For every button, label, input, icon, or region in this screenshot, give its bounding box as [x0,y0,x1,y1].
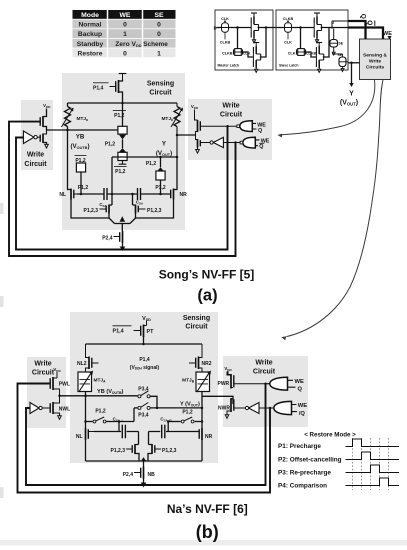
svg-text:Sensing &: Sensing & [363,53,387,59]
svg-text:MTJa: MTJa [77,116,89,122]
svg-text:NR: NR [205,434,213,440]
svg-text:P1,2: P1,2 [95,409,106,415]
svg-text:P2,4: P2,4 [123,472,134,478]
svg-text:0: 0 [123,22,127,29]
svg-text:P1,2: P1,2 [105,141,116,147]
svg-text:CSA_L: CSA_L [113,417,124,423]
svg-text:CLKB: CLKB [220,41,231,45]
svg-text:0: 0 [157,22,161,29]
svg-text:NWL: NWL [59,407,70,413]
svg-text:Circuits: Circuits [366,65,384,71]
svg-text:P1,2: P1,2 [115,169,126,175]
svg-text:MTJA: MTJA [94,378,107,384]
svg-text:Restore: Restore [78,50,103,57]
svg-text:Y: Y [349,91,354,98]
svg-text:P3,4: P3,4 [138,412,149,418]
svg-text:P2: Offset-cancelling: P2: Offset-cancelling [278,457,342,464]
svg-text:NL2: NL2 [77,361,87,367]
svg-text:Master Latch: Master Latch [218,64,240,68]
svg-text:0: 0 [123,50,127,57]
svg-text:Circuit: Circuit [32,370,55,377]
svg-text:SE: SE [154,12,164,19]
svg-text:/Q: /Q [299,411,306,417]
svg-text:Backup: Backup [78,31,102,38]
svg-text:Write: Write [34,361,51,368]
svg-text:CSA: CSA [136,200,144,206]
svg-text:P1,2,3: P1,2,3 [111,448,126,454]
svg-text:CLKB: CLKB [283,17,294,21]
svg-text:CLK: CLK [284,41,292,45]
svg-text:Circuit: Circuit [24,161,47,168]
svg-text:Sensing: Sensing [183,315,210,322]
svg-text:Circuit: Circuit [220,112,243,119]
svg-text:CLK: CLK [221,17,229,21]
svg-text:Sensing: Sensing [147,81,174,88]
svg-text:P1,2: P1,2 [155,185,166,191]
svg-text:P1,2,3: P1,2,3 [84,208,99,214]
svg-text:Standby: Standby [77,41,104,48]
svg-text:0: 0 [157,31,161,38]
svg-text:CLKB: CLKB [222,51,233,55]
svg-text:Na’s NV-FF [6]: Na’s NV-FF [6] [167,502,248,516]
svg-text:P4: Comparison: P4: Comparison [278,483,327,490]
svg-text:CSA_R: CSA_R [160,417,172,423]
svg-text:P1,4: P1,4 [113,329,124,335]
svg-text:P1,4: P1,4 [93,85,104,91]
svg-text:Circuit: Circuit [149,90,172,97]
svg-text:WE: WE [295,379,304,385]
svg-text:VDD: VDD [53,367,61,373]
svg-text:1: 1 [157,50,161,57]
svg-text:P1: Precharge: P1: Precharge [278,443,321,450]
svg-text:(VDDH signal): (VDDH signal) [130,365,160,371]
svg-text:Slave Latch: Slave Latch [279,64,298,68]
svg-text:MTJb: MTJb [161,116,173,122]
svg-text:Circuit: Circuit [253,369,276,376]
svg-text:Write: Write [27,152,44,159]
svg-text:P1,2: P1,2 [182,410,193,416]
svg-text:VDD: VDD [224,366,232,372]
svg-text:Q: Q [360,14,367,19]
svg-text:Song’s NV-FF [5]: Song’s NV-FF [5] [159,268,255,282]
svg-text:P2,4: P2,4 [102,235,113,241]
svg-text:YB: YB [76,133,85,140]
svg-text:Circuit: Circuit [185,323,208,330]
svg-text:VDD: VDD [43,103,51,109]
svg-text:P1,2: P1,2 [146,161,157,167]
svg-text:PT: PT [147,329,155,335]
svg-text:(a): (a) [197,287,217,305]
svg-text:P1,4: P1,4 [139,357,150,363]
svg-text:Normal: Normal [78,22,101,29]
svg-text:NL: NL [59,192,66,198]
svg-text:(b): (b) [196,522,219,542]
svg-text:NR2: NR2 [202,361,212,367]
svg-text:NL: NL [76,434,83,440]
svg-text:NB: NB [148,472,156,478]
svg-text:PWL: PWL [59,382,70,388]
svg-text:Zero VDD Scheme: Zero VDD Scheme [115,41,168,48]
svg-text:WE: WE [120,12,131,19]
svg-text:1: 1 [123,31,127,38]
svg-text:Q: Q [298,386,303,392]
svg-text:NR: NR [180,192,188,198]
svg-text:VDD: VDD [191,104,199,110]
svg-text:Q: Q [366,20,373,25]
svg-text:Write: Write [255,360,272,367]
svg-text:CLK: CLK [288,51,296,55]
svg-text:Q: Q [259,144,263,150]
svg-text:< Restore Mode >: < Restore Mode > [304,432,356,439]
svg-text:P1,2: P1,2 [78,185,89,191]
svg-text:Write: Write [369,59,381,65]
svg-text:P1,2,3: P1,2,3 [162,448,177,454]
svg-text:PWR: PWR [218,381,230,387]
svg-text:Mode: Mode [81,12,99,19]
svg-text:Q: Q [258,128,262,134]
svg-text:D: D [214,26,217,31]
svg-text:P1,2,3: P1,2,3 [147,208,162,214]
svg-text:Write: Write [222,103,239,110]
svg-text:WE: WE [298,403,307,409]
svg-text:NWR: NWR [218,405,230,411]
svg-text:P3: Re-precharge: P3: Re-precharge [278,470,331,477]
svg-text:MTJB: MTJB [182,378,195,384]
